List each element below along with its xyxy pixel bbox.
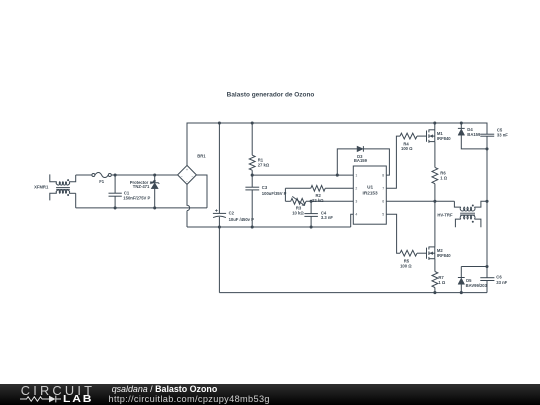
capacitor C4 <box>304 210 333 220</box>
bridge rectifier BR1 <box>178 153 207 184</box>
node R1/C3/pin1 junction <box>251 174 254 177</box>
wire ground mid rail to pin4 <box>351 214 354 227</box>
wire R1 bottom lead <box>251 170 253 175</box>
node C2 mid-rail junction <box>218 225 221 228</box>
wire M2 drain up <box>434 201 436 247</box>
wire C6 top lead <box>486 267 488 278</box>
diode D4 <box>458 127 481 137</box>
resistor R6 <box>432 167 448 183</box>
capacitor C5 <box>480 127 508 137</box>
wire BR1 right corner loop <box>196 175 207 208</box>
wire D4 bottom lead <box>461 135 487 149</box>
wire D5 top lead <box>460 267 462 278</box>
node D4 rail junction <box>460 121 463 124</box>
wire XFMR1 secondary right lead down <box>75 193 77 208</box>
svg-text:2: 2 <box>355 187 357 191</box>
wire right rail C5 to HV-TRF <box>486 136 488 201</box>
node HV-TRF right rail junction <box>485 200 488 203</box>
svg-text:BA159: BA159 <box>354 158 368 163</box>
wire BR1 plus output up to top rail <box>186 123 188 166</box>
svg-text:7: 7 <box>382 187 384 191</box>
node half-bridge junction <box>433 200 436 203</box>
svg-text:4: 4 <box>355 213 357 217</box>
svg-text:IRF840: IRF840 <box>437 136 451 141</box>
title text <box>227 92 315 99</box>
svg-text:1 Ω: 1 Ω <box>440 175 447 180</box>
wire pin2 net left of R2 <box>285 187 310 189</box>
node protector bottom junction <box>153 206 156 209</box>
wire D3 loop left <box>337 149 357 175</box>
wire pin7 net to R4 <box>386 136 400 188</box>
svg-text:C2: C2 <box>229 210 235 215</box>
wire D5 bottom lead <box>460 284 462 292</box>
svg-text:100 Ω: 100 Ω <box>400 264 412 269</box>
rheostat R3 <box>291 196 306 215</box>
svg-text:8: 8 <box>382 174 384 178</box>
node F1/C1 junction <box>114 173 117 176</box>
svg-text:+: + <box>186 168 188 172</box>
wire C3 top lead <box>251 175 253 187</box>
wire AC bottom rail <box>76 207 207 209</box>
wire R5 to M2 gate <box>417 252 426 254</box>
transistor M2 IRF840 <box>427 247 452 260</box>
svg-text:XFMR1: XFMR1 <box>34 184 49 189</box>
wire AC top from F1 to BR1 left <box>111 174 178 176</box>
capacitor C6 <box>480 275 507 285</box>
wire M2 source to R7 <box>434 259 436 272</box>
resistor R4 <box>400 133 417 151</box>
wire protector branch bottom <box>154 189 156 208</box>
wire R4 to M1 gate <box>417 135 426 137</box>
svg-text:C3: C3 <box>262 185 268 190</box>
logo diode <box>49 396 56 403</box>
wire +DC rail right corner down to C5 <box>486 123 488 135</box>
node D4/C5 junction <box>485 147 488 150</box>
svg-text:~: ~ <box>191 174 193 178</box>
svg-text:F1: F1 <box>99 179 105 184</box>
wire M1 drain to top rail <box>434 123 436 130</box>
wire ground bottom rail <box>219 292 487 294</box>
footer bar <box>0 384 540 405</box>
capacitor C2 <box>213 209 254 222</box>
node C4 mid-rail junction <box>310 225 313 228</box>
svg-text:6: 6 <box>382 200 384 204</box>
svg-text:33 nF: 33 nF <box>496 280 507 285</box>
footer author line <box>109 385 270 404</box>
resistor R5 <box>400 250 417 268</box>
svg-text:100uF/35V P: 100uF/35V P <box>262 191 287 196</box>
svg-text:5: 5 <box>382 213 384 217</box>
svg-text:IRF840: IRF840 <box>437 253 451 258</box>
wire R2-R3 left corner <box>284 188 286 201</box>
wire ground drop from mid rail to bottom rail <box>218 227 220 293</box>
svg-text:~: ~ <box>181 174 183 178</box>
wire VCC net pin1 <box>252 174 353 176</box>
resistor R2 <box>311 185 325 203</box>
wire C3 bottom lead <box>251 190 253 227</box>
wire D5/C6 top link <box>461 266 487 268</box>
svg-text:10 kΩ: 10 kΩ <box>292 210 304 215</box>
svg-text:HV-TRF: HV-TRF <box>437 213 453 218</box>
transformer XFMR1 <box>34 174 76 200</box>
logo resistor squiggle <box>20 397 49 402</box>
capacitor C1 <box>109 190 151 200</box>
fuse F1 <box>92 172 111 184</box>
svg-text:3: 3 <box>355 200 357 204</box>
wire +DC top rail <box>187 122 487 124</box>
wire pin2 net right of R2 <box>325 187 353 189</box>
svg-text:BA159: BA159 <box>467 132 481 137</box>
svg-text:U1: U1 <box>367 184 373 189</box>
node R1 top rail junction <box>251 121 254 124</box>
svg-text:27 kΩ: 27 kΩ <box>258 163 270 168</box>
wire ground mid rail <box>187 226 351 228</box>
wire C1 branch top <box>114 175 116 193</box>
wire BR1 minus down with hop <box>187 185 190 228</box>
wire pin6 net <box>386 200 454 202</box>
wire right rail HV-TRF to D5 node <box>486 201 488 266</box>
op-amp/IC U1 IR2153 <box>353 166 386 224</box>
node C3 mid-rail junction <box>251 225 254 228</box>
resistor R7 <box>432 272 446 288</box>
wire M1 source to R6 <box>434 142 436 168</box>
wire D3 loop right <box>363 149 389 175</box>
svg-text:10uF /450v P: 10uF /450v P <box>229 217 255 222</box>
wire protector branch top <box>154 175 156 183</box>
svg-text:100 Ω: 100 Ω <box>401 146 413 151</box>
wire pin3 net right of R3 <box>306 200 353 202</box>
svg-text:33 nF: 33 nF <box>497 132 508 137</box>
wire C4 branch bottom <box>310 216 312 227</box>
svg-text:1: 1 <box>355 174 357 178</box>
node C4 pin3 junction <box>310 200 313 203</box>
CircuitLab logo <box>0 384 100 405</box>
wire R6 bottom lead <box>434 184 436 202</box>
node protector top junction <box>153 173 156 176</box>
svg-text:IR2153: IR2153 <box>363 190 379 195</box>
node C2 top rail junction <box>218 121 221 124</box>
diode D3 <box>354 146 368 163</box>
TVS protector TNZ-471 <box>130 180 160 189</box>
wire C2 branch top <box>218 123 220 213</box>
transistor M1 IRF840 <box>427 129 452 142</box>
node C1 ground junction <box>114 206 117 209</box>
resistor R1 <box>249 155 270 170</box>
wire D4 top lead <box>460 123 462 128</box>
svg-text:Balasto generador de Ozono: Balasto generador de Ozono <box>227 92 315 99</box>
svg-text:150nF/275V P: 150nF/275V P <box>123 196 150 201</box>
svg-text:TNZ-471: TNZ-471 <box>133 184 150 189</box>
svg-text:BR1: BR1 <box>197 153 206 158</box>
svg-text:−: − <box>186 180 188 184</box>
svg-text:3.3 nF: 3.3 nF <box>321 215 334 220</box>
node M1 drain rail junction <box>433 121 436 124</box>
svg-text:22 kΩ: 22 kΩ <box>312 198 324 203</box>
node D3 anode junction <box>336 174 339 177</box>
wire pin3 net left of R3 <box>285 200 290 202</box>
svg-text:1 Ω: 1 Ω <box>438 280 445 285</box>
wire C6 bottom lead <box>486 281 488 293</box>
wire R7 bottom lead <box>434 288 436 293</box>
transformer HV-TRF <box>437 201 487 227</box>
wire R1 top lead <box>251 123 253 155</box>
wire pin5 net to R5 <box>386 214 400 253</box>
wire C1 branch bottom <box>114 196 116 208</box>
wire AC top from XFMR1 to F1 <box>76 174 93 176</box>
node D5/C6 junction <box>485 265 488 268</box>
node R7 ground junction <box>433 291 436 294</box>
node D5 ground junction <box>460 291 463 294</box>
capacitor C3 <box>245 185 286 196</box>
diode D5 <box>458 278 488 288</box>
wire C4 branch top <box>310 201 312 213</box>
svg-text:BAV99/203: BAV99/203 <box>466 283 488 288</box>
wire C2 branch bottom <box>218 217 220 227</box>
